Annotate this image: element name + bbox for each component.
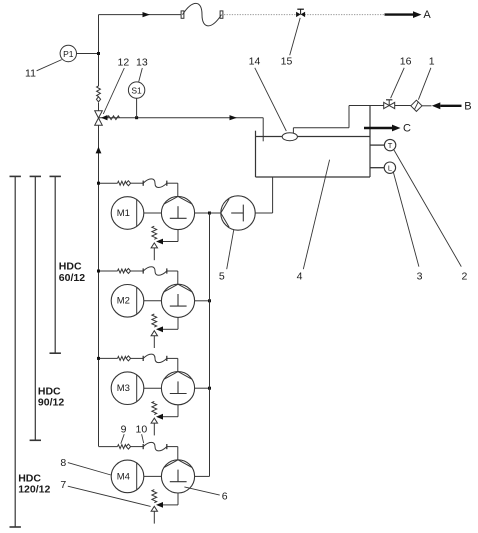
svg-text:90/12: 90/12 [38, 397, 64, 409]
svg-text:A: A [423, 9, 431, 21]
svg-text:T: T [388, 141, 393, 150]
svg-text:1: 1 [429, 56, 435, 68]
svg-text:B: B [464, 100, 471, 112]
svg-text:15: 15 [281, 56, 293, 68]
svg-text:M3: M3 [117, 383, 130, 394]
svg-text:120/12: 120/12 [18, 484, 50, 496]
svg-text:11: 11 [25, 68, 36, 80]
svg-text:HDC: HDC [59, 261, 82, 273]
svg-text:7: 7 [60, 479, 66, 491]
svg-text:P1: P1 [63, 49, 74, 59]
svg-text:HDC: HDC [18, 472, 41, 484]
svg-text:M1: M1 [117, 208, 130, 219]
svg-text:M4: M4 [117, 471, 130, 482]
svg-text:S1: S1 [131, 85, 142, 95]
svg-text:HDC: HDC [38, 385, 61, 397]
svg-text:12: 12 [118, 56, 130, 68]
svg-text:3: 3 [417, 270, 423, 282]
svg-text:C: C [403, 123, 411, 135]
svg-text:14: 14 [249, 56, 261, 68]
svg-text:6: 6 [222, 491, 228, 503]
svg-text:L: L [388, 164, 392, 173]
svg-text:8: 8 [60, 457, 66, 469]
svg-text:5: 5 [219, 270, 225, 282]
svg-text:13: 13 [136, 56, 148, 68]
svg-text:60/12: 60/12 [59, 272, 85, 284]
svg-text:16: 16 [400, 56, 412, 68]
svg-text:10: 10 [136, 424, 148, 436]
svg-text:4: 4 [297, 270, 303, 282]
svg-text:M2: M2 [117, 296, 130, 307]
svg-text:2: 2 [461, 270, 467, 282]
svg-text:9: 9 [121, 424, 127, 436]
